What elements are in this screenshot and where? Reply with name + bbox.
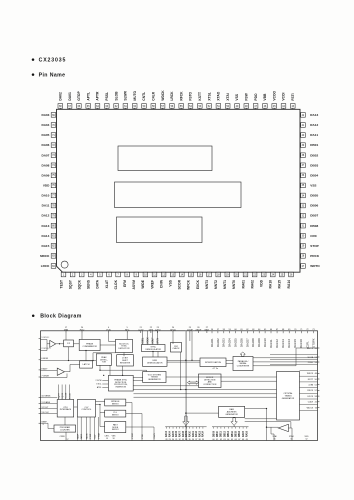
svg-text:CLOK: CLOK xyxy=(114,279,118,289)
svg-text:LRCK: LRCK xyxy=(307,396,313,398)
main data bus (vertical) xyxy=(184,331,186,441)
svg-text:RA12: RA12 xyxy=(195,430,198,437)
wire FSOF (servo output to bottom edge) xyxy=(132,403,134,441)
pin MUTG (right edge) xyxy=(307,348,320,350)
svg-text:SCOR: SCOR xyxy=(178,279,182,289)
svg-text:VBB: VBB xyxy=(64,329,69,331)
svg-text:CLTV: CLTV xyxy=(138,329,144,331)
svg-text:69: 69 xyxy=(246,439,248,441)
svg-text:VSS: VSS xyxy=(169,279,173,286)
wire SQCK into CPU interface xyxy=(62,385,64,400)
pin DB15 (bottom bus B) xyxy=(235,427,238,441)
svg-text:19: 19 xyxy=(106,438,108,440)
pin XPCK (top edge) xyxy=(170,327,176,333)
svg-text:DA13: DA13 xyxy=(41,224,49,228)
pin WFCK (right edge) xyxy=(307,373,320,375)
inverter A3 (crystal osc) xyxy=(278,424,288,431)
wire amp A1 to divider xyxy=(56,343,64,345)
svg-text:WDCK: WDCK xyxy=(161,90,165,101)
svg-text:STOP: STOP xyxy=(310,244,318,248)
IC package outline CX23035 xyxy=(57,109,301,272)
junction xyxy=(180,389,181,390)
bullet marker xyxy=(32,58,35,61)
wire spindle servo out xyxy=(126,402,132,404)
svg-text:DAC01: DAC01 xyxy=(210,338,214,347)
pin SENS (left edge) xyxy=(39,396,58,398)
svg-text:SERVO: SERVO xyxy=(112,429,119,431)
svg-text:SOCK: SOCK xyxy=(147,337,149,344)
pin 8 (EFM) bottom xyxy=(123,272,130,287)
pin RA12 (bottom bus A) xyxy=(195,427,198,441)
pin C2PO (top edge) xyxy=(155,327,161,333)
pin DAC12 (top right group) xyxy=(275,329,279,348)
pin DAC08 (top, serial data group) xyxy=(251,329,255,347)
wire amp A2 out to latch xyxy=(65,365,80,372)
pin 43 (FSTI) top xyxy=(291,93,296,109)
wire XPCK drop xyxy=(172,333,174,344)
svg-text:VSS: VSS xyxy=(235,93,239,100)
svg-text:DB16: DB16 xyxy=(239,430,241,437)
pin 14 (SCOR) bottom xyxy=(178,272,185,289)
pin 50 (XTAI) top xyxy=(225,93,230,109)
svg-text:TOR: TOR xyxy=(102,362,107,364)
junction xyxy=(185,412,186,413)
svg-text:GSEL: GSEL xyxy=(142,337,144,344)
wire long mid run 3 xyxy=(134,393,277,395)
svg-text:DA05: DA05 xyxy=(41,133,49,137)
pin EFM (left edge) xyxy=(39,358,48,360)
wire CLV to PLL servo xyxy=(96,405,105,413)
pin 40 (RA11) right xyxy=(300,133,318,138)
svg-text:RA10: RA10 xyxy=(188,430,191,437)
svg-text:DATA: DATA xyxy=(96,279,100,288)
wire xtal out to XTAI xyxy=(271,427,274,434)
wire FOK drop xyxy=(109,333,116,342)
inner box 3 xyxy=(117,217,203,243)
svg-text:DB10: DB10 xyxy=(217,430,219,437)
svg-text:DA14: DA14 xyxy=(41,234,49,238)
svg-text:32: 32 xyxy=(179,439,181,441)
svg-text:CLV: CLV xyxy=(95,434,97,439)
svg-text:DB14: DB14 xyxy=(231,430,234,437)
wire phase comparator to slice detector xyxy=(100,344,115,346)
svg-text:DA06: DA06 xyxy=(41,143,49,147)
svg-text:CX23035: CX23035 xyxy=(39,58,67,64)
pin 74 (DA08) left xyxy=(41,163,56,168)
svg-text:DB01: DB01 xyxy=(310,143,318,147)
svg-text:SFSY: SFSY xyxy=(157,337,159,343)
pin 82 (DA15) left xyxy=(41,244,56,249)
junction xyxy=(185,360,186,361)
svg-text:WFCK: WFCK xyxy=(307,373,314,375)
pin DB16 (bottom bus B) xyxy=(238,427,241,441)
svg-text:DB02: DB02 xyxy=(310,153,318,157)
svg-text:DA11: DA11 xyxy=(42,204,50,208)
bus arrow left-right (bus to error correction) xyxy=(187,381,198,384)
wire parallel/serial out to PSSL xyxy=(253,361,318,363)
svg-text:DAC05: DAC05 xyxy=(234,338,238,347)
op-amp A1 (VCO) xyxy=(50,340,56,347)
pin CLV (bottom, servo out) xyxy=(95,417,97,441)
svg-text:REGISTER: REGISTER xyxy=(120,362,131,364)
svg-text:DA09: DA09 xyxy=(41,173,49,177)
wire CLV to spindle servo xyxy=(96,401,105,403)
bullet marker xyxy=(32,314,35,317)
pin 23 (VDD) bottom xyxy=(260,272,267,287)
pin DB10 (bottom bus B) xyxy=(216,427,219,441)
pin RA10 (bottom bus A) xyxy=(188,427,191,441)
pin 77 (DA10) left xyxy=(41,193,56,198)
sync demodulator block xyxy=(142,345,166,352)
wire long mid run 2 xyxy=(134,389,277,391)
wire frame sync to VCO timing (2) xyxy=(133,380,143,382)
wire EXCK into CPU interface xyxy=(69,385,71,400)
pin CLK (left edge) xyxy=(39,412,58,414)
pin MNT (top edge) xyxy=(205,327,210,333)
svg-text:RA03: RA03 xyxy=(165,430,168,437)
svg-text:CLVS: CLVS xyxy=(154,433,156,439)
wire frame sync to VCO timing (1) xyxy=(133,377,143,379)
pin RA15 (bottom bus B) xyxy=(242,427,245,441)
wire VBB into divider xyxy=(65,333,67,340)
svg-text:DA10: DA10 xyxy=(41,194,49,198)
svg-text:XPCK: XPCK xyxy=(170,329,176,331)
svg-text:RA11: RA11 xyxy=(192,431,195,437)
junction xyxy=(68,360,69,361)
bus arrow down (RAM address gen to bottom pins) xyxy=(231,418,237,426)
divider block ÷2 xyxy=(64,340,74,347)
pin 79 (DA12) left xyxy=(41,213,56,218)
svg-text:DB08: DB08 xyxy=(310,224,318,228)
pin GTOP (top edge) xyxy=(187,327,193,333)
svg-text:XTAI: XTAI xyxy=(272,435,277,438)
wire PCK (servo output to bottom edge) xyxy=(142,414,144,441)
pin LRCK (right edge) xyxy=(307,396,319,398)
CPU interface block xyxy=(57,400,73,418)
svg-text:30: 30 xyxy=(172,439,174,441)
svg-text:VSS: VSS xyxy=(310,183,316,187)
svg-text:DB15: DB15 xyxy=(236,430,238,437)
svg-text:DAC16: DAC16 xyxy=(299,339,303,348)
wire phase comparator to latch xyxy=(85,351,87,361)
pin CLTV (top edge) xyxy=(138,327,144,333)
op-amp A2 (ASY) xyxy=(57,368,64,375)
wire RAM addr gen input arrow xyxy=(185,412,218,414)
pin 27 (WRTO) right xyxy=(300,264,320,269)
svg-text:RA09: RA09 xyxy=(185,430,188,437)
svg-text:DAC07: DAC07 xyxy=(245,338,249,347)
svg-text:65: 65 xyxy=(231,439,233,441)
svg-text:36: 36 xyxy=(192,439,194,441)
wire long mid run 1 xyxy=(134,385,199,387)
pin 52 (XTSL) top xyxy=(207,92,212,109)
svg-text:DAC11: DAC11 xyxy=(269,339,273,348)
pin 53 (KSTT) top xyxy=(198,92,203,109)
svg-text:WDCK: WDCK xyxy=(307,407,314,409)
pin XLT (left edge) xyxy=(39,407,58,409)
svg-text:SQCK: SQCK xyxy=(78,279,82,289)
svg-text:PWM: PWM xyxy=(98,433,100,438)
junction xyxy=(92,360,93,361)
svg-text:DB06: DB06 xyxy=(310,204,318,208)
svg-text:DB12: DB12 xyxy=(224,430,226,437)
svg-text:SCOR: SCOR xyxy=(66,392,68,399)
svg-text:62: 62 xyxy=(220,439,222,441)
pin C4LR (right edge) xyxy=(308,402,320,404)
svg-text:XTAO: XTAO xyxy=(289,435,295,438)
pin 55 (RFCK) top xyxy=(179,91,184,109)
wire PDO into phase comparator xyxy=(81,333,83,339)
pin 78 (DA11) left xyxy=(42,203,57,208)
svg-text:DETECTOR: DETECTOR xyxy=(119,348,131,350)
svg-text:28: 28 xyxy=(165,439,167,441)
pin 36 (DB04) right xyxy=(300,173,318,178)
pin FSW (bottom, servo out) xyxy=(90,417,92,441)
pin 84 (LRCK) left xyxy=(41,264,57,269)
wire VCO timing out to crystal block xyxy=(166,376,277,378)
pin DB13 (bottom bus B) xyxy=(227,427,230,441)
svg-text:RA13: RA13 xyxy=(198,430,201,437)
svg-text:FSTO: FSTO xyxy=(189,91,193,100)
pin 51 (XTAO) top xyxy=(216,91,221,109)
23-bit shift register block xyxy=(117,355,134,366)
pin 56 (LRCK) top xyxy=(170,91,175,109)
svg-text:APTL: APTL xyxy=(86,92,90,101)
svg-text:KSTT: KSTT xyxy=(198,92,202,101)
svg-text:4.3M: 4.3M xyxy=(308,384,313,386)
junction xyxy=(266,427,267,428)
svg-text:CHECK: CHECK xyxy=(172,348,180,350)
pin VCO I (left edge) xyxy=(39,337,50,339)
pin VBB (top edge) xyxy=(64,327,69,333)
svg-text:RFCK: RFCK xyxy=(307,390,313,392)
svg-text:DAC09: DAC09 xyxy=(257,338,261,347)
pin 16 (EXCK) bottom xyxy=(196,272,203,289)
junction xyxy=(99,404,100,405)
inner box 2 xyxy=(115,182,242,208)
pin 66 (GTOP) top xyxy=(77,91,82,110)
wire/net GSEL into sync demodulator xyxy=(142,331,144,345)
pin 7 (CLOK) bottom xyxy=(114,272,121,289)
pin 26 (RA14) bottom xyxy=(287,272,294,288)
wire/net SOUT into sync demodulator xyxy=(152,331,154,345)
svg-text:GENERATOR: GENERATOR xyxy=(148,378,161,381)
wire SCOR into CPU interface xyxy=(66,385,68,400)
wire/net SOCK into sync demodulator xyxy=(147,331,149,345)
svg-text:6 EFM: 6 EFM xyxy=(41,358,48,360)
svg-text:60: 60 xyxy=(212,439,214,441)
pin 12 (CNIN) bottom xyxy=(159,272,166,288)
svg-text:XLAT: XLAT xyxy=(105,280,109,288)
wire EFM input run xyxy=(41,360,97,362)
svg-text:DAC14: DAC14 xyxy=(287,339,291,348)
junction xyxy=(266,408,267,409)
svg-text:DB09: DB09 xyxy=(213,430,215,437)
wire ATSL into frame sync block xyxy=(97,386,108,389)
pin DAC01 (top, serial data group) xyxy=(210,329,214,347)
svg-text:CRC: CRC xyxy=(310,234,317,238)
svg-text:ATSL: ATSL xyxy=(97,386,102,389)
wire CPU interface to CLV control xyxy=(74,406,78,408)
CLV control block xyxy=(77,400,95,418)
pin 41 (RA12) right xyxy=(300,123,318,128)
PLL servo block xyxy=(105,410,126,417)
svg-text:DAC10: DAC10 xyxy=(263,338,267,347)
svg-text:FSW: FSW xyxy=(245,92,249,100)
pin RA09 (bottom bus A) xyxy=(185,427,188,441)
svg-text:CONVERTER: CONVERTER xyxy=(237,366,250,368)
pin 46 (VBB) top xyxy=(263,93,268,109)
pin GTOPX (top right group) xyxy=(311,329,315,348)
wire CLV to fast mode servo xyxy=(100,413,105,427)
svg-text:XTSL: XTSL xyxy=(207,92,211,100)
svg-text:61: 61 xyxy=(216,439,218,441)
junction xyxy=(85,350,86,351)
pin 29 (STOP) right xyxy=(300,244,319,249)
svg-text:RA16: RA16 xyxy=(269,280,273,289)
bus bracket B xyxy=(212,426,249,428)
parallel/serial converter block xyxy=(233,357,253,371)
junction xyxy=(99,370,100,371)
pin 64 (APTR) top xyxy=(95,91,100,109)
svg-text:GTOP: GTOP xyxy=(77,91,81,101)
pin DAC07 (top, serial data group) xyxy=(245,329,249,347)
svg-text:GFS: GFS xyxy=(149,329,154,331)
svg-text:FSTI: FSTI xyxy=(291,93,295,100)
VCO system timing generator block xyxy=(143,372,166,383)
svg-text:XROF: XROF xyxy=(196,329,203,331)
svg-text:VBB: VBB xyxy=(263,93,267,101)
crystal timing generator block xyxy=(277,372,300,421)
pin DB14 (bottom bus B) xyxy=(231,427,234,441)
svg-text:XTAI: XTAI xyxy=(226,93,230,100)
svg-text:GTOPX: GTOPX xyxy=(311,338,315,348)
wire SCL into frame sync block xyxy=(96,384,108,386)
pin 4.3M (right edge) xyxy=(308,384,319,386)
svg-text:MON: MON xyxy=(86,433,88,438)
svg-text:DB03: DB03 xyxy=(310,163,318,167)
wire divider down to EFM run xyxy=(68,347,70,361)
svg-text:8 ASY: 8 ASY xyxy=(41,367,48,370)
pin PWM (bottom, servo out) xyxy=(98,417,100,441)
svg-text:39: 39 xyxy=(202,439,204,441)
svg-text:VCOO: VCOO xyxy=(272,90,276,100)
svg-text:CORRECTION: CORRECTION xyxy=(203,384,217,386)
pin DAC14 (top right group) xyxy=(287,329,291,348)
pin 81 (DA14) left xyxy=(41,233,56,238)
pin RA05 (bottom bus A) xyxy=(172,427,175,441)
svg-text:CONTROL: CONTROL xyxy=(81,409,92,411)
svg-text:33: 33 xyxy=(182,439,184,441)
svg-text:ASYM: ASYM xyxy=(132,280,136,290)
pin C2FL (top right group) xyxy=(305,329,309,348)
wire EFM branch up to slice detector xyxy=(93,353,116,361)
pin 31 (DB08) right xyxy=(300,223,318,228)
pin VCO O (left edge) xyxy=(39,348,51,350)
svg-text:VCOI: VCOI xyxy=(282,92,286,100)
pin 65 (APTL) top xyxy=(86,92,91,109)
svg-text:MUTG: MUTG xyxy=(133,90,137,100)
pin 72 (DA06) left xyxy=(41,143,56,148)
interpolation block xyxy=(200,358,226,367)
svg-text:DAC13: DAC13 xyxy=(281,339,285,348)
svg-text:RA15: RA15 xyxy=(278,280,282,289)
pin 30 (CRC) right xyxy=(300,233,318,238)
svg-text:VREF: VREF xyxy=(150,280,154,289)
junction xyxy=(122,375,123,376)
pin 35 (VSS) right xyxy=(300,183,317,188)
pin 42 (RA13) right xyxy=(300,113,318,118)
svg-text:SENS: SENS xyxy=(87,279,91,289)
svg-text:INTERFACE: INTERFACE xyxy=(60,408,72,411)
svg-text:MDS: MDS xyxy=(81,433,83,438)
pin RA07 (bottom bus A) xyxy=(178,427,181,441)
svg-text:67: 67 xyxy=(238,439,240,441)
wire long mid run 4 xyxy=(134,396,277,398)
svg-text:RA13: RA13 xyxy=(310,113,318,117)
svg-text:RA14: RA14 xyxy=(287,280,291,289)
pin MON (bottom, servo out) xyxy=(86,417,88,441)
svg-text:63: 63 xyxy=(224,439,226,441)
pin 75 (DA09) left xyxy=(41,173,56,178)
pin 54 (FSTO) top xyxy=(188,91,193,109)
pin-1 index mark xyxy=(61,261,68,268)
svg-text:INTERPOLATION: INTERPOLATION xyxy=(205,361,222,364)
svg-text:DB05: DB05 xyxy=(310,194,318,198)
pin 34 (DB05) right xyxy=(300,193,318,198)
pin 70 (DA04) left xyxy=(41,123,56,128)
pin 48 (FSW) top xyxy=(244,92,249,109)
svg-text:7 WIDE: 7 WIDE xyxy=(41,375,49,377)
pin 76 (VDD) left xyxy=(43,183,57,188)
svg-text:XTAO: XTAO xyxy=(217,91,221,100)
svg-text:64: 64 xyxy=(227,439,229,441)
pin 3 (SQCK) bottom xyxy=(78,272,85,289)
pin 62 (SLOB) top xyxy=(114,91,119,109)
svg-text:FOK: FOK xyxy=(106,329,111,331)
pin 37 (DB03) right xyxy=(300,163,318,168)
wire/net SFSY into sync demodulator xyxy=(157,331,159,345)
pin RA04 (bottom bus A) xyxy=(169,427,172,441)
wire RAM addr gen out right xyxy=(245,409,267,441)
svg-text:DA08: DA08 xyxy=(41,163,49,167)
svg-text:FSOF: FSOF xyxy=(132,432,134,438)
svg-text:C2FL: C2FL xyxy=(305,341,309,348)
bus arrow up (parallel/serial to pins) xyxy=(240,352,245,357)
svg-text:PCK: PCK xyxy=(142,434,144,439)
svg-text:DB11: DB11 xyxy=(221,431,223,437)
pin 68 (DA02) top xyxy=(58,92,63,109)
svg-text:WFCK: WFCK xyxy=(187,279,191,290)
pin SLOB (right edge) xyxy=(307,357,319,359)
svg-text:PRCK: PRCK xyxy=(310,254,320,258)
svg-text:DAC02: DAC02 xyxy=(216,338,220,347)
pin 18 (MNT2) bottom xyxy=(214,272,221,289)
svg-text:DA07: DA07 xyxy=(41,153,49,157)
svg-text:VDD: VDD xyxy=(43,183,50,187)
svg-text:RA02: RA02 xyxy=(250,280,254,289)
svg-text:DA04: DA04 xyxy=(41,123,49,127)
pin 45 (VCOO) top xyxy=(272,90,277,109)
wire ASY input xyxy=(41,370,58,372)
pin DAC13 (top right group) xyxy=(281,329,285,348)
svg-text:APTR: APTR xyxy=(96,91,100,101)
svg-text:GENERATOR: GENERATOR xyxy=(225,413,238,416)
svg-text:SLOB: SLOB xyxy=(114,91,118,101)
wire RAM addr gen out to crystal xyxy=(245,418,277,420)
pin 63 (PSSL) top xyxy=(105,92,110,109)
wire CRC check down to mid run xyxy=(180,352,182,390)
